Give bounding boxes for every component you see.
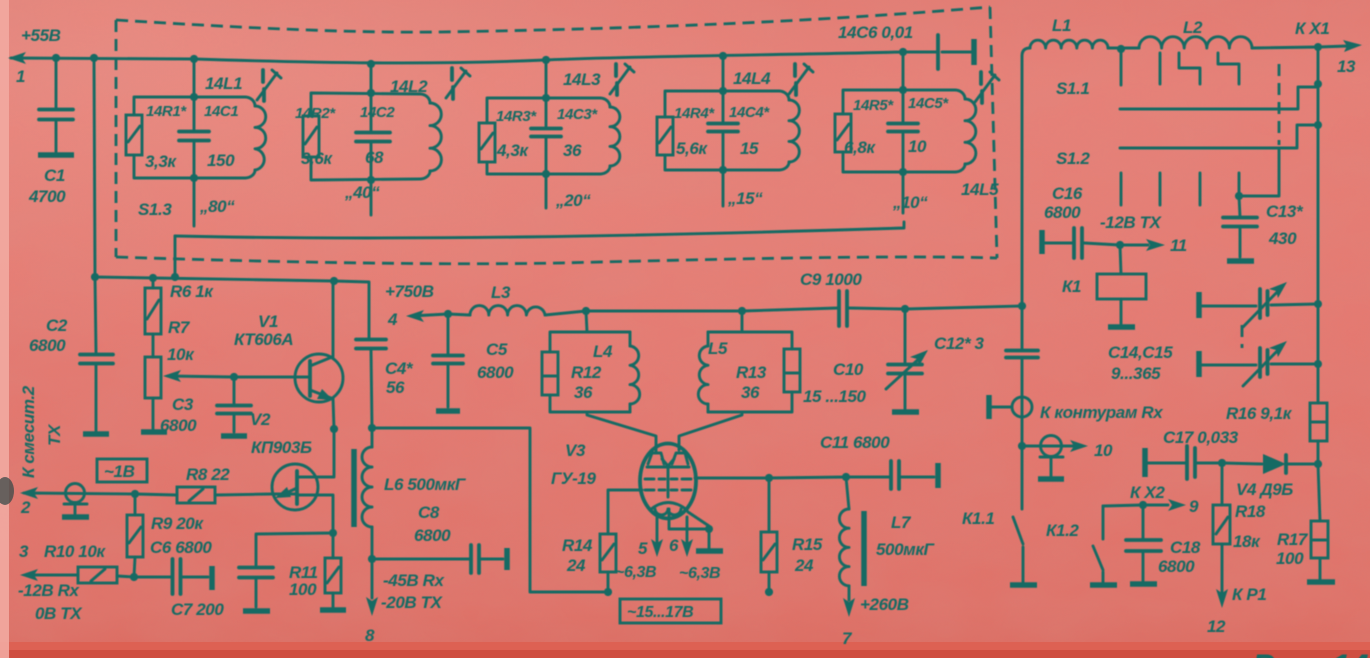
- svg-text:3,3к: 3,3к: [145, 152, 177, 171]
- svg-text:430: 430: [1268, 229, 1297, 248]
- resistor R11: [332, 533, 335, 607]
- tuning slug 14L1: [263, 70, 264, 101]
- coax connector at node 2: [66, 484, 85, 503]
- svg-text:L4: L4: [593, 342, 613, 361]
- inductor 14L5: [955, 90, 965, 172]
- svg-text:К X1: К X1: [1295, 19, 1329, 38]
- svg-text:С1: С1: [44, 166, 65, 185]
- resistor 14R5: [835, 114, 851, 152]
- svg-text:К1: К1: [1062, 277, 1081, 296]
- dashed filter-box top edge: [116, 7, 990, 32]
- svg-text:КП903Б: КП903Б: [251, 438, 312, 457]
- resistor R16: [1310, 403, 1327, 441]
- node: junction to coax 10: [1018, 442, 1026, 450]
- switch S1.2 common line: [1120, 125, 1318, 148]
- -12V TX arrow node 11: [1120, 244, 1148, 247]
- svg-text:S1.3: S1.3: [138, 200, 172, 219]
- potentiometer R7: [145, 357, 161, 398]
- svg-text:R10 10к: R10 10к: [44, 542, 106, 561]
- wire: C10 node to main vertical: [905, 306, 1022, 309]
- capacitor C3: [233, 377, 236, 432]
- svg-text:4: 4: [387, 310, 398, 329]
- svg-text:8: 8: [365, 626, 375, 645]
- capacitor C1: [55, 58, 58, 152]
- tank 40m: feed wire: [370, 64, 373, 215]
- svg-text:2: 2: [20, 498, 31, 517]
- svg-text:14R2*: 14R2*: [295, 105, 336, 122]
- resistor 14R4: [657, 117, 673, 155]
- transistor V2 KP903B: [272, 464, 318, 510]
- svg-text:6: 6: [669, 536, 679, 555]
- svg-text:14R3*: 14R3*: [496, 108, 537, 125]
- svg-text:S1.2: S1.2: [1056, 149, 1090, 168]
- switch S1.2 contacts: [1121, 173, 1239, 205]
- svg-text:R16 9,1к: R16 9,1к: [1226, 404, 1293, 423]
- dashed filter-box right edge: [990, 7, 997, 258]
- svg-text:К1.1: К1.1: [962, 509, 994, 528]
- svg-text:Рис. 14: Рис. 14: [1252, 648, 1369, 658]
- svg-text:13: 13: [1337, 57, 1356, 76]
- svg-text:R9 20к: R9 20к: [151, 514, 204, 533]
- svg-text:14L4: 14L4: [733, 69, 771, 88]
- capacitor C8: [372, 558, 469, 561]
- variable capacitor C10: [904, 309, 907, 409]
- capacitor C12: [1006, 351, 1038, 358]
- wire: V1 collector feed line: [95, 277, 369, 339]
- dashed gang link C14-C15: [1241, 325, 1244, 348]
- node 12 arrow K P1: [1216, 589, 1228, 608]
- capacitor 14C1: [193, 97, 196, 178]
- svg-text:С9 1000: С9 1000: [800, 270, 862, 289]
- svg-text:+750В: +750В: [385, 282, 434, 301]
- tube cathode dome: [650, 503, 687, 511]
- resistor R10: [27, 575, 134, 577]
- capacitor 14C2: [370, 93, 373, 180]
- capacitor C4: [356, 340, 386, 349]
- transistor V1 KT606A: [295, 354, 343, 402]
- svg-text:14С5*: 14С5*: [908, 95, 949, 112]
- svg-text:500мкГ: 500мкГ: [876, 540, 936, 559]
- node 2 arrow and wire to connector: [24, 493, 135, 494]
- resistor R15: [768, 478, 771, 592]
- svg-text:V2: V2: [250, 410, 271, 429]
- resistor 14R1: [126, 115, 142, 155]
- svg-text:V4 Д9Б: V4 Д9Б: [1236, 480, 1293, 499]
- wire: S1.3 wiper long line: [175, 222, 904, 238]
- svg-text:9: 9: [1189, 497, 1199, 516]
- diode V4 D9B: [1222, 463, 1318, 464]
- inductor L3: [448, 314, 470, 315]
- svg-text:„15“: „15“: [727, 189, 763, 208]
- resistor R14: [608, 490, 642, 592]
- svg-text:К Р1: К Р1: [1232, 585, 1266, 604]
- node: junction R8/R9: [131, 490, 139, 498]
- svg-text:12: 12: [1207, 617, 1226, 636]
- svg-text:0В ТХ: 0В ТХ: [35, 604, 83, 623]
- tank 40m rails: [311, 93, 420, 180]
- node 8 arrow: [371, 559, 374, 598]
- svg-text:R14: R14: [562, 536, 593, 555]
- svg-text:14С3*: 14С3*: [557, 106, 598, 123]
- boxed label ~1В: [97, 459, 147, 482]
- svg-text:6800: 6800: [414, 526, 451, 545]
- svg-text:14R1*: 14R1*: [146, 103, 187, 120]
- svg-text:14L3: 14L3: [563, 70, 601, 89]
- svg-text:R17: R17: [1277, 530, 1309, 549]
- resistor R18: [1221, 463, 1224, 592]
- svg-text:С16: С16: [1052, 184, 1083, 203]
- svg-text:С8: С8: [418, 503, 440, 522]
- capacitor 14C5: [902, 90, 905, 172]
- svg-text:ГУ-19: ГУ-19: [551, 469, 596, 488]
- capacitor: V2 source bypass: [256, 533, 333, 607]
- svg-text:~6,3В: ~6,3В: [679, 565, 720, 582]
- tube heater pin 5 arrow: [656, 516, 659, 544]
- capacitor C13: [1239, 196, 1240, 257]
- tube screen bar: [647, 467, 689, 497]
- svg-text:К контурам Rх: К контурам Rх: [1040, 403, 1164, 422]
- svg-text:6800: 6800: [1158, 557, 1195, 576]
- svg-text:R18: R18: [1235, 502, 1266, 521]
- svg-text:V1: V1: [258, 312, 278, 331]
- svg-text:68: 68: [365, 148, 384, 167]
- tank 15m: feed wire: [722, 56, 725, 206]
- coax jack to Rx circuits: [986, 395, 992, 419]
- svg-text:-20В ТХ: -20В ТХ: [381, 593, 444, 612]
- resistor R13: [784, 349, 800, 392]
- svg-text:14С4*: 14С4*: [729, 104, 770, 121]
- svg-text:R12: R12: [571, 363, 602, 382]
- svg-text:R8 22: R8 22: [186, 465, 230, 484]
- capacitor 14C3: [545, 98, 548, 174]
- svg-text:С18: С18: [1170, 538, 1201, 557]
- svg-text:ТХ: ТХ: [45, 423, 64, 446]
- tank 20m rails: [487, 98, 600, 174]
- switch S1.1 common line: [1120, 47, 1318, 109]
- svg-text:С5: С5: [486, 340, 508, 359]
- left edge shadow blob: [0, 477, 14, 505]
- svg-text:С10: С10: [833, 360, 864, 379]
- resistor R9: [134, 494, 135, 577]
- tank 20m: feed wire: [545, 60, 548, 208]
- svg-text:14С1: 14С1: [204, 103, 238, 120]
- svg-text:L3: L3: [491, 283, 511, 302]
- resistor 14R3: [479, 123, 495, 162]
- svg-text:R13: R13: [736, 363, 767, 382]
- variable capacitor C15: [1196, 351, 1202, 377]
- variable capacitor C14: [1196, 292, 1202, 318]
- node: L6 bottom: [368, 555, 376, 563]
- svg-text:14С2: 14С2: [360, 104, 395, 121]
- svg-text:3,6к: 3,6к: [301, 149, 333, 168]
- svg-text:9...365: 9...365: [1111, 364, 1161, 383]
- inductor 14L2: [420, 94, 430, 179]
- resistor 14R2: [303, 116, 319, 157]
- svg-text:С13*: С13*: [1266, 202, 1304, 221]
- svg-text:К смесит.2: К смесит.2: [19, 385, 38, 478]
- tank 80m: feed wire: [193, 59, 196, 226]
- wire: right vertical: [1318, 304, 1320, 579]
- svg-text:5,6к: 5,6к: [676, 139, 708, 158]
- tube grid dashes: [645, 478, 691, 481]
- svg-text:36: 36: [563, 141, 582, 160]
- svg-text:„40“: „40“: [344, 183, 380, 202]
- dashed filter-box bottom edge: [116, 257, 997, 264]
- svg-text:6,8к: 6,8к: [844, 138, 876, 157]
- svg-text:36: 36: [741, 383, 760, 402]
- relay coil K1: [1120, 245, 1121, 324]
- svg-text:15: 15: [740, 139, 759, 158]
- tube heater pin 6 arrow: [686, 517, 689, 544]
- svg-text:С7 200: С7 200: [171, 600, 224, 619]
- svg-text:L7: L7: [891, 513, 912, 532]
- svg-text:10: 10: [908, 137, 927, 156]
- wire: drain node to screen corner: [372, 428, 608, 592]
- wire: vertical feed from bus down left side: [94, 58, 96, 353]
- svg-text:КТ606А: КТ606А: [234, 330, 293, 349]
- resistor R8: [135, 494, 272, 495]
- svg-text:С14,С15: С14,С15: [1108, 343, 1173, 362]
- svg-text:4700: 4700: [28, 187, 66, 206]
- tank 10m: feed wire: [902, 52, 905, 213]
- node: emitter/drain node: [330, 425, 338, 433]
- svg-text:„10“: „10“: [892, 193, 928, 212]
- svg-text:L2: L2: [1183, 18, 1203, 37]
- svg-text:~15...17В: ~15...17В: [627, 604, 693, 621]
- svg-text:4,3к: 4,3к: [496, 141, 529, 160]
- node: V2 source junction: [329, 529, 337, 537]
- relay contact K1.1: [1013, 517, 1023, 583]
- resistor R6: [152, 278, 155, 357]
- inductor L1: [1030, 40, 1108, 48]
- svg-text:150: 150: [207, 151, 235, 170]
- svg-text:3: 3: [19, 542, 29, 561]
- svg-text:6800: 6800: [477, 363, 514, 382]
- tuning slug 14L2: [452, 68, 453, 99]
- svg-text:С12* 3: С12* 3: [934, 334, 985, 353]
- tank 10m rails: [843, 90, 955, 172]
- svg-text:24: 24: [566, 556, 586, 575]
- svg-text:10к: 10к: [167, 345, 195, 364]
- tube cathode ground: [669, 509, 709, 549]
- wire: tank outputs diagonals to tube anodes: [587, 412, 742, 452]
- svg-text:-45В Rx: -45В Rx: [383, 571, 445, 590]
- svg-text:6800: 6800: [29, 336, 66, 355]
- svg-text:+260В: +260В: [860, 595, 909, 614]
- inductor 14L4f: [779, 91, 789, 170]
- node 3 junction: [130, 573, 138, 581]
- svg-text:R7: R7: [168, 318, 191, 337]
- svg-text:24: 24: [794, 556, 814, 575]
- capacitor C7: [134, 576, 208, 579]
- tube grid chevron: [662, 459, 674, 466]
- tank 15m rails: [665, 91, 779, 170]
- svg-text:14R4*: 14R4*: [674, 105, 715, 122]
- bottom dark page edge: [0, 642, 1370, 658]
- inductor L4: [629, 332, 632, 412]
- svg-text:С4*: С4*: [385, 359, 414, 378]
- svg-text:R15: R15: [792, 535, 823, 554]
- svg-text:+55В: +55В: [21, 26, 61, 45]
- svg-text:5: 5: [638, 539, 648, 558]
- inductor 14L1: [245, 97, 255, 178]
- svg-text:S1.1: S1.1: [1056, 79, 1089, 98]
- svg-text:С3: С3: [172, 395, 194, 414]
- svg-text:6800: 6800: [1044, 203, 1081, 222]
- svg-text:14С6 0,01: 14С6 0,01: [838, 23, 913, 42]
- tuning slug 14L3: [616, 64, 617, 95]
- svg-text:18к: 18к: [1233, 532, 1261, 551]
- tuning slug 14L4: [795, 64, 796, 95]
- inductor 14L3f: [600, 98, 610, 174]
- svg-text:С17 0,033: С17 0,033: [1163, 428, 1239, 447]
- svg-text:-12В Rх: -12В Rх: [18, 581, 80, 600]
- svg-text:R6 1к: R6 1к: [170, 282, 214, 301]
- resistor R17: [1311, 521, 1328, 558]
- svg-text:6800: 6800: [160, 416, 197, 435]
- vacuum tube V3 GU-19 envelope: [640, 444, 696, 519]
- wire to K X1 with arrow node 13: [1252, 46, 1348, 48]
- wire: R7 wiper to V1 base: [168, 376, 295, 377]
- wire: main PA output vertical: [1021, 306, 1024, 509]
- node: bus junction dots: [52, 54, 60, 62]
- svg-text:14L2: 14L2: [390, 77, 428, 96]
- wire: main +55V bus with left arrow: [11, 52, 903, 63]
- coax jack node 10: [1022, 445, 1062, 448]
- switch mechanical dashed link: [1278, 64, 1281, 145]
- boxed label ~15...17V: [620, 599, 721, 623]
- svg-text:С6 6800: С6 6800: [150, 538, 212, 557]
- inductor L2: [1121, 47, 1139, 50]
- svg-text:36: 36: [574, 383, 593, 402]
- svg-text:15 ...150: 15 ...150: [803, 387, 867, 406]
- svg-text:„20“: „20“: [555, 191, 591, 210]
- svg-text:56: 56: [386, 378, 405, 397]
- svg-text:„80“: „80“: [199, 197, 235, 216]
- tuning slug 14L5: [981, 72, 982, 103]
- inductor L6 with core: [371, 428, 374, 447]
- svg-text:11: 11: [1170, 236, 1187, 255]
- svg-text:С11 6800: С11 6800: [820, 433, 890, 452]
- tank L4 rails: [550, 332, 630, 412]
- svg-text:14L5: 14L5: [961, 180, 999, 199]
- svg-text:14R5*: 14R5*: [853, 97, 894, 114]
- svg-text:L6 500мкГ: L6 500мкГ: [384, 475, 467, 494]
- svg-text:L1: L1: [1052, 16, 1071, 35]
- svg-text:1: 1: [16, 67, 25, 86]
- capacitor C18: [1142, 505, 1145, 581]
- switch S1.1 taps from coils: [1121, 49, 1239, 85]
- tube anode plates: [648, 453, 688, 464]
- svg-text:10: 10: [1094, 441, 1113, 460]
- svg-text:100: 100: [1276, 549, 1304, 568]
- wire: S1.2 to C13: [1239, 148, 1279, 196]
- tank L5 rails: [708, 332, 792, 412]
- svg-text:V3: V3: [565, 441, 586, 460]
- svg-text:К X2: К X2: [1130, 483, 1165, 502]
- capacitor C5: [447, 314, 450, 407]
- svg-text:К1.2: К1.2: [1046, 521, 1079, 540]
- top-right: PA output vertical to L1: [1022, 48, 1030, 306]
- anode tank L5/R13: feed: [741, 311, 744, 332]
- inductor L7 with core: [846, 477, 849, 509]
- capacitor C2: [80, 355, 113, 364]
- svg-text:100: 100: [289, 580, 317, 599]
- tank 80m rails: [134, 97, 245, 178]
- anode tank L4/R12: feed: [586, 311, 587, 332]
- svg-text:L5: L5: [708, 339, 728, 358]
- svg-text:~6,3В: ~6,3В: [615, 564, 656, 581]
- node 7 arrow +260V: [848, 586, 851, 600]
- inductor L5: [707, 332, 710, 412]
- capacitor 14C4: [722, 91, 725, 170]
- svg-text:14L1: 14L1: [205, 74, 242, 93]
- resistor R12: [542, 352, 558, 395]
- dashed filter-box left edge: [115, 20, 118, 257]
- left page edge strip: [0, 0, 9, 658]
- svg-text:-12В ТХ: -12В ТХ: [1100, 213, 1163, 232]
- svg-text:С2: С2: [46, 316, 68, 335]
- svg-text:~1В: ~1В: [104, 462, 135, 481]
- wire: grid line to C11: [695, 477, 846, 478]
